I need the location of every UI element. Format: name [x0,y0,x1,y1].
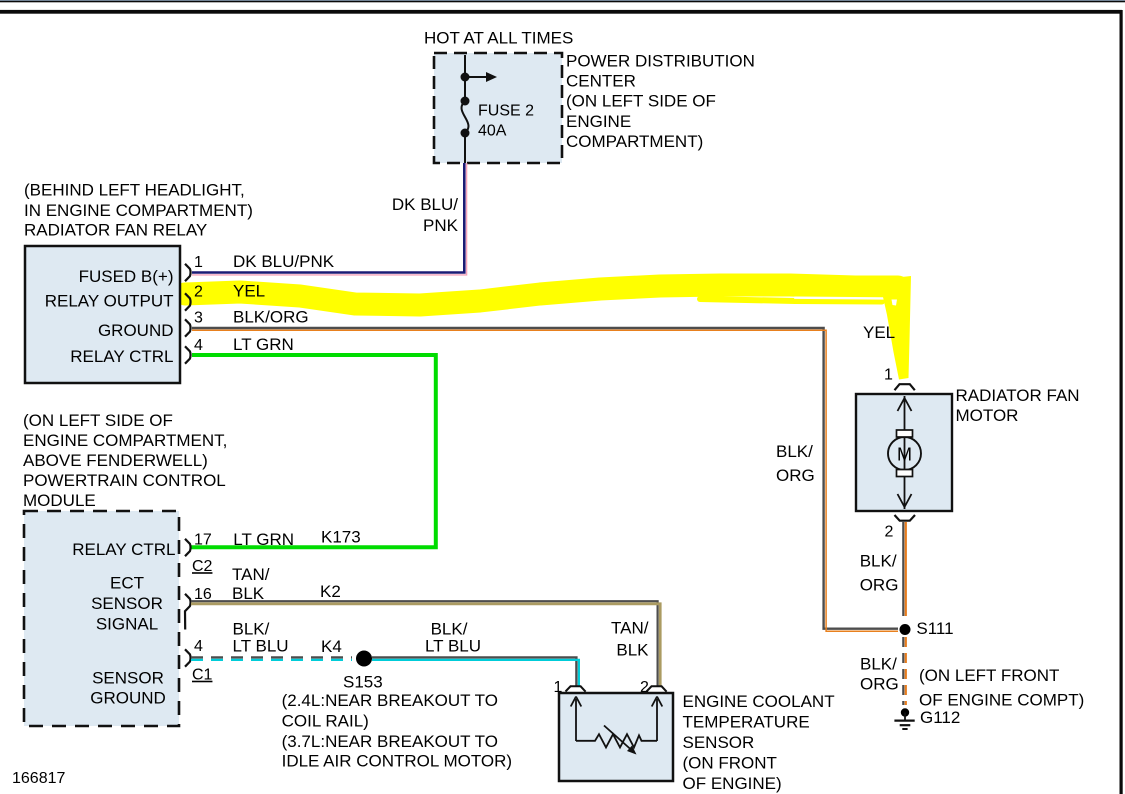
svg-text:RELAY CTRL: RELAY CTRL [70,347,173,366]
svg-text:RELAY OUTPUT: RELAY OUTPUT [45,292,174,311]
svg-text:G112: G112 [920,708,960,727]
radiator fan relay location note [24,181,253,240]
relay pin 4 connector [185,346,191,363]
svg-text:TEMPERATURE: TEMPERATURE [683,712,810,731]
svg-text:M: M [897,445,912,465]
right frame border [1120,10,1123,794]
svg-text:HOT AT ALL TIMES: HOT AT ALL TIMES [424,29,573,48]
powertrain control module box (dashed) [24,511,179,726]
svg-text:4: 4 [194,638,203,655]
motor pin 2 connector [895,515,916,521]
svg-text:2: 2 [885,524,894,541]
power distribution center box (dashed) [434,53,562,163]
power distribution center label [566,52,755,151]
engine coolant temperature sensor box [559,693,673,781]
svg-text:POWERTRAIN CONTROL: POWERTRAIN CONTROL [23,471,226,490]
svg-text:DK BLU/: DK BLU/ [392,195,458,214]
svg-text:POWER DISTRIBUTION: POWER DISTRIBUTION [566,52,755,71]
fuse F2 40A [461,97,470,106]
thermistor R (zigzag with arrow) [576,734,657,747]
svg-text:FUSED B(+): FUSED B(+) [79,267,174,286]
svg-text:ECT: ECT [110,574,144,593]
motor M1 symbol [888,396,921,509]
svg-text:COIL RAIL): COIL RAIL) [282,712,369,731]
svg-text:SIGNAL: SIGNAL [96,615,158,634]
PCM pin 17 connector [185,539,191,556]
S153 location note [282,691,512,771]
PCM pin 4 connector [185,649,191,666]
svg-text:S153: S153 [343,673,383,692]
svg-text:GROUND: GROUND [98,321,174,340]
svg-text:(ON FRONT: (ON FRONT [683,753,777,772]
svg-text:(ON LEFT SIDE OF: (ON LEFT SIDE OF [23,411,173,430]
svg-text:BLK/: BLK/ [776,442,813,461]
svg-text:IN ENGINE COMPARTMENT): IN ENGINE COMPARTMENT) [24,201,253,220]
radiator fan relay box [25,246,180,383]
svg-text:DK BLU/PNK: DK BLU/PNK [233,252,335,271]
svg-text:FUSE 2: FUSE 2 [478,103,534,120]
PCM internal labels [72,540,175,708]
wire BLK/ORG dashed (S111 to G112) [902,637,904,705]
svg-text:(2.4L:NEAR BREAKOUT TO: (2.4L:NEAR BREAKOUT TO [282,691,498,710]
svg-text:ENGINE: ENGINE [566,112,631,131]
relay pin 3 connector [185,319,191,336]
PCM pin 16 connector with tail [185,594,191,630]
splice S111 [900,624,911,635]
svg-text:IDLE AIR CONTROL MOTOR): IDLE AIR CONTROL MOTOR) [282,752,512,771]
node bus dot with arrow tap [461,73,470,82]
svg-text:TAN/: TAN/ [232,565,270,584]
wire BLK/LT BLU solid (S153 to ECT pin 1) [372,657,576,687]
svg-text:TAN/: TAN/ [611,618,649,637]
svg-text:LT GRN: LT GRN [233,530,294,549]
svg-text:YEL: YEL [863,323,895,342]
svg-text:C1: C1 [192,667,213,684]
svg-text:17: 17 [194,532,212,549]
wire BLK/ORG (motor pin 2 to S111) [902,522,904,616]
svg-text:ORG: ORG [860,674,899,693]
svg-text:GROUND: GROUND [90,689,166,708]
motor pin 1 connector [895,384,915,390]
wire LT GRN (relay pin 4 to PCM pin 17) [190,355,436,547]
top thick frame line [0,10,1122,14]
wire inside PDC (bus) [464,55,466,101]
svg-text:4: 4 [194,337,203,354]
svg-text:40A: 40A [478,123,507,140]
svg-text:PNK: PNK [423,216,459,235]
svg-text:RADIATOR FAN: RADIATOR FAN [956,386,1080,405]
svg-text:(BEHIND LEFT HEADLIGHT,: (BEHIND LEFT HEADLIGHT, [24,181,245,200]
svg-text:(ON LEFT SIDE OF: (ON LEFT SIDE OF [566,92,716,111]
wire BLK/ORG (relay pin 3 to S111) [192,328,898,629]
svg-text:BLK/: BLK/ [860,552,897,571]
wire fuse to box bottom [464,133,466,163]
ECT internal pin 1 lead with arrowhead [575,699,577,741]
ground G112 symbol [894,708,914,729]
relay internal pin labels [45,267,174,366]
wire TAN/BLK (PCM pin 16 to ECT pin 2) [191,601,658,687]
svg-text:COMPARTMENT): COMPARTMENT) [566,132,703,151]
svg-text:OF ENGINE COMPT): OF ENGINE COMPT) [919,691,1084,710]
radiator fan motor box [856,394,952,511]
svg-text:1: 1 [194,254,203,271]
ECT sensor label [683,692,835,793]
svg-text:BLK/: BLK/ [431,619,468,638]
svg-text:CENTER: CENTER [566,72,636,91]
svg-text:OF ENGINE): OF ENGINE) [683,774,782,793]
svg-text:166817: 166817 [12,770,65,787]
svg-text:K173: K173 [321,528,361,547]
wire BLK/LT BLU dashed (PCM pin 4 to S153) [191,656,352,658]
YEL wire thick highlight (relay pin 2 to motor pin 1) [185,276,911,380]
svg-text:RELAY CTRL: RELAY CTRL [72,540,175,559]
svg-text:LT BLU: LT BLU [233,637,289,656]
svg-text:(ON LEFT FRONT: (ON LEFT FRONT [919,666,1059,685]
svg-text:SENSOR: SENSOR [91,594,163,613]
ECT sensor pin 1 connector [566,686,586,691]
svg-text:BLK/: BLK/ [233,619,270,638]
svg-text:LT GRN: LT GRN [233,335,294,354]
svg-text:ENGINE COOLANT: ENGINE COOLANT [683,692,835,711]
relay pin 1 connector [185,264,191,281]
svg-text:ORG: ORG [860,576,899,595]
ECT internal pin 2 lead with arrowhead [656,699,658,741]
svg-text:BLK/: BLK/ [860,655,897,674]
svg-text:K2: K2 [320,582,341,601]
svg-text:MOTOR: MOTOR [956,406,1019,425]
svg-text:2: 2 [194,284,203,301]
svg-text:ABOVE FENDERWELL): ABOVE FENDERWELL) [23,451,208,470]
svg-text:LT BLU: LT BLU [425,637,481,656]
splice S153 [356,651,372,667]
svg-text:K4: K4 [321,637,342,656]
svg-text:3: 3 [194,310,203,327]
svg-text:MODULE: MODULE [23,491,96,510]
svg-text:RADIATOR FAN RELAY: RADIATOR FAN RELAY [24,220,207,239]
svg-text:1: 1 [884,367,893,384]
svg-text:SENSOR: SENSOR [92,669,164,688]
svg-text:ORG: ORG [776,466,815,485]
ECT sensor pin 2 connector [647,686,667,691]
relay pin 2 connector [185,293,191,310]
powertrain control module location note [23,411,227,510]
wire DK BLU/PNK (fuse to relay pin 1) [192,163,464,273]
svg-text:BLK/ORG: BLK/ORG [233,308,309,327]
svg-text:ENGINE COMPARTMENT,: ENGINE COMPARTMENT, [23,431,227,450]
svg-text:SENSOR: SENSOR [683,733,755,752]
svg-text:BLK: BLK [616,641,649,660]
svg-text:BLK: BLK [232,584,265,603]
svg-text:S111: S111 [916,619,953,638]
svg-text:C2: C2 [192,558,213,575]
svg-text:YEL: YEL [233,282,265,301]
top thin frame line [0,0,1125,2]
svg-text:(3.7L:NEAR BREAKOUT TO: (3.7L:NEAR BREAKOUT TO [282,732,498,751]
